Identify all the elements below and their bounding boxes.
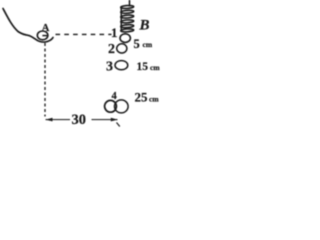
ball at A <box>37 31 48 40</box>
vertical dashed line <box>44 43 46 117</box>
svg-text:cm: cm <box>150 63 160 72</box>
right arrowhead <box>111 118 118 122</box>
svg-text:A: A <box>42 23 50 34</box>
svg-text:30: 30 <box>72 112 87 128</box>
dashed trajectory <box>56 33 112 35</box>
svg-text:B: B <box>139 18 150 34</box>
svg-text:5: 5 <box>134 37 140 51</box>
ball position 4 left <box>105 100 117 112</box>
svg-text:25: 25 <box>135 90 149 105</box>
ramp curve <box>3 9 53 42</box>
svg-text:cm: cm <box>149 95 159 104</box>
ball inner mark <box>42 35 47 37</box>
tick below right arrow <box>117 123 120 127</box>
ball position 2 <box>117 44 127 53</box>
dimension line right segment <box>92 119 118 121</box>
spring B coil <box>121 5 134 32</box>
spring left edge <box>120 7 122 32</box>
svg-text:1: 1 <box>111 25 118 40</box>
ball position 3 <box>115 61 128 70</box>
spring B top rod <box>129 0 131 7</box>
ball position 4 right <box>115 100 129 113</box>
svg-text:cm: cm <box>143 40 153 49</box>
ball position 1 under spring <box>120 34 130 43</box>
svg-text:15: 15 <box>137 61 149 73</box>
svg-text:2: 2 <box>108 42 115 57</box>
left arrowhead <box>46 118 53 122</box>
svg-text:3: 3 <box>106 60 113 75</box>
dimension line left segment <box>46 119 71 121</box>
